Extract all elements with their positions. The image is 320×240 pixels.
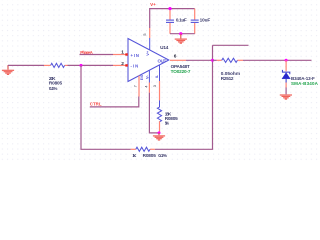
- svg-text:3: 3: [153, 85, 157, 87]
- pin 2 connection dot: [125, 64, 127, 66]
- wire sense resistor to output right: [243, 59, 312, 61]
- resistor 0.05ohm zigzag: [222, 58, 238, 62]
- label 1K value: [132, 153, 167, 158]
- ground (decoupling caps): [175, 34, 187, 44]
- wire feedback: down and along bottom: [81, 65, 131, 149]
- svg-text:R0805: R0805: [143, 153, 157, 158]
- ground (left, at 20K input): [2, 65, 14, 74]
- pin 4 V- lead: [148, 70, 150, 92]
- svg-text:4: 4: [144, 85, 148, 87]
- wire stub top right: [213, 44, 249, 46]
- wire diode anode to ground: [285, 88, 287, 95]
- wire capacitor bottoms: [170, 33, 195, 35]
- wire output rail: [186, 59, 213, 61]
- wire Phase A to +IN pin: [80, 54, 114, 56]
- pin 5 V+ lead: [149, 28, 151, 50]
- pin 7 E/S lead: [138, 76, 140, 97]
- pin 1 +IN lead: [113, 54, 128, 56]
- svg-text:+IN: +IN: [131, 53, 139, 58]
- svg-text:6: 6: [174, 54, 177, 60]
- wire V+ rail and riser to op-amp: [150, 9, 195, 28]
- svg-text:10uF: 10uF: [200, 18, 211, 23]
- wire output junction to sense resistor: [213, 59, 217, 61]
- svg-text:CTRL: CTRL: [90, 101, 102, 106]
- svg-text:U14: U14: [160, 45, 169, 50]
- pin 1 connection dot: [125, 53, 127, 55]
- pin 3 ILIM lead: [159, 65, 161, 100]
- resistor 0.05ohm leads: [217, 59, 243, 61]
- svg-text:V-: V-: [144, 75, 149, 79]
- svg-text:IL: IL: [155, 75, 159, 78]
- svg-text:-IN: -IN: [131, 64, 139, 69]
- wire 20K to -IN pin: [68, 64, 114, 66]
- svg-text:0.1%: 0.1%: [158, 153, 168, 158]
- svg-text:0.1uF: 0.1uF: [176, 18, 187, 23]
- wire V- pin down to 13K bottom junction: [149, 93, 159, 133]
- capacitor C 10uF: [191, 9, 199, 34]
- node junction diode tap: [285, 59, 288, 62]
- op-amp U14 triangle body: [128, 39, 169, 82]
- resistor 1K zigzag: [136, 147, 150, 151]
- pin 2 -IN lead: [113, 64, 128, 66]
- label 13K value: [165, 112, 178, 126]
- label 0.05ohm R2512 value: [221, 71, 240, 81]
- svg-text:SMA-B340A: SMA-B340A: [291, 81, 319, 86]
- ground (diode): [280, 95, 292, 99]
- node junction output/feedback: [211, 59, 214, 62]
- pin 6 OUT lead: [170, 59, 186, 61]
- wire CTRL to E/S pin: [90, 97, 139, 107]
- capacitor C 0.1uF: [166, 9, 174, 34]
- svg-text:E/S: E/S: [140, 74, 144, 80]
- diode schottky cathode bar: [282, 70, 289, 74]
- wire bottom rail right + right vertical up to output: [155, 45, 213, 149]
- svg-text:1: 1: [121, 50, 124, 56]
- ground (13K): [153, 133, 165, 140]
- node junction cap bottom: [179, 32, 182, 35]
- svg-text:TO0220-7: TO0220-7: [171, 69, 191, 74]
- svg-text:5: 5: [143, 33, 147, 35]
- resistor 13K zigzag: [157, 100, 161, 121]
- svg-text:0.1%: 0.1%: [49, 86, 58, 91]
- resistor 20K zigzag: [51, 63, 65, 67]
- diode body triangle: [282, 73, 290, 79]
- node junction at -IN / feedback: [80, 64, 83, 67]
- label 20K value: [49, 76, 63, 91]
- svg-text:V+: V+: [145, 50, 150, 56]
- svg-text:R2512: R2512: [221, 76, 234, 81]
- svg-text:OUT: OUT: [158, 58, 167, 63]
- resistor 13K lower lead: [159, 121, 161, 133]
- node junction V+ rail: [168, 7, 171, 10]
- diode cathode lead: [285, 60, 287, 71]
- op-amp U14: [113, 28, 186, 100]
- svg-text:1K: 1K: [132, 153, 137, 158]
- diode anode lead: [285, 79, 287, 88]
- svg-text:V+: V+: [150, 2, 156, 7]
- diode B340A (schottky): [282, 60, 290, 94]
- svg-text:2: 2: [121, 61, 124, 67]
- svg-text:7: 7: [134, 85, 138, 87]
- wire ground to 20K resistor: [8, 64, 44, 66]
- node junction 13K bottom: [158, 131, 161, 134]
- resistor 1K leads: [131, 148, 155, 150]
- resistor 20K leads: [44, 64, 68, 66]
